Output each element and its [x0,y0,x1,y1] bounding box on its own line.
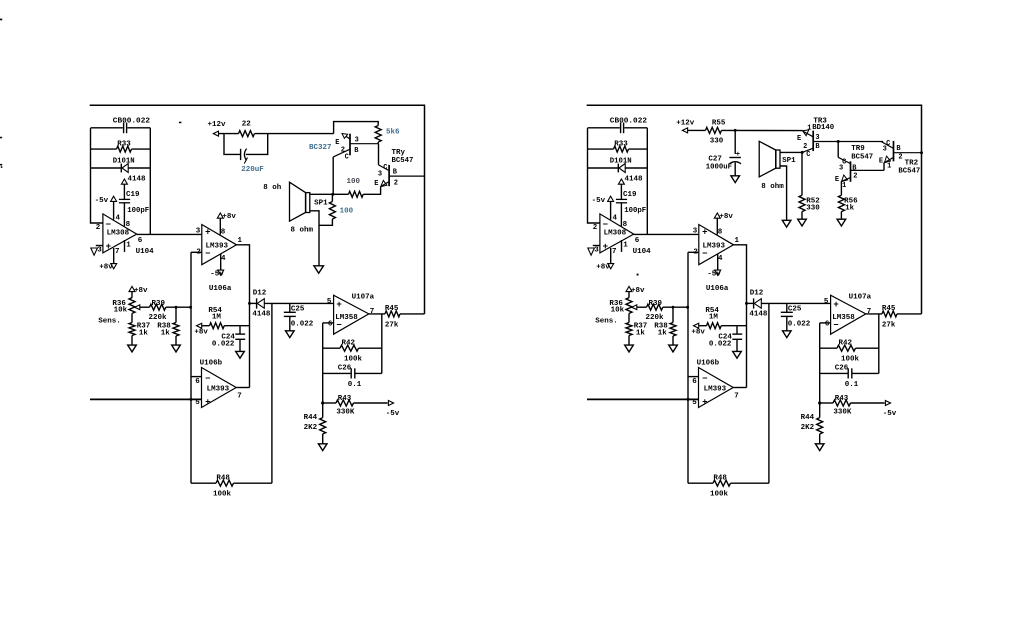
svg-text:R45: R45 [385,305,399,313]
svg-text:3: 3 [378,170,382,178]
svg-text:2: 2 [853,173,857,181]
wire U106a pin2 (left) [191,251,202,253]
svg-text:R39: R39 [649,300,663,308]
svg-text:−: − [702,374,707,384]
svg-text:+8v: +8v [596,264,610,272]
svg-text:E: E [879,157,883,165]
svg-text:6: 6 [692,378,697,386]
resistor R33 (right) [588,148,614,150]
wire SP1 bottom terminal (right) [780,166,787,220]
junction speaker node (left) [331,193,334,196]
svg-text:1: 1 [842,182,846,190]
svg-text:R45: R45 [882,305,896,313]
junction R38 top (right) [672,306,675,309]
wire R36 to R37 (left) [131,313,133,322]
svg-text:E: E [335,139,339,147]
svg-text:U107a: U107a [849,294,872,302]
wire SP1 top terminal (right) [780,151,802,153]
svg-text:LM393: LM393 [704,386,727,394]
svg-text:BC547: BC547 [851,153,873,161]
svg-text:-5v: -5v [883,410,897,418]
svg-text:TR2: TR2 [905,159,919,167]
svg-text:1: 1 [126,242,131,250]
op-amp U104 LM308 (right) [600,214,634,253]
capacitor C27 1000uF (right) [734,130,736,154]
svg-text:6: 6 [138,237,143,245]
svg-text:+: + [205,228,210,238]
transistor TRy BC547 (left) [378,144,380,165]
wire fb bus vertical (right) [819,323,821,418]
resistor R45 27k (left) [385,311,400,317]
svg-text:R48: R48 [713,475,727,483]
svg-text:3: 3 [815,134,819,142]
svg-text:BD140: BD140 [812,124,834,132]
svg-text:2: 2 [803,143,807,151]
resistor 100 horizontal (left) [349,191,364,197]
transistor TR9 BC547 (right) [837,142,839,158]
wire SP1 bottom terminal (left) [310,211,319,266]
ground below R38 (left) [175,336,177,345]
svg-text:D12: D12 [253,290,267,298]
wire U106b output (left) [236,387,249,389]
+8v supply at U104 pin7 (right) [610,248,612,263]
wire input long to U106b pin5 (left) [90,398,202,400]
svg-text:7: 7 [115,248,120,256]
svg-text:10k: 10k [611,307,625,315]
svg-text:C19: C19 [623,191,637,199]
svg-text:C25: C25 [291,306,305,314]
op-amp U104 LM308 (left) [103,214,137,253]
svg-text:3: 3 [196,227,201,235]
wire R40 up to D12 node (left) [271,303,273,483]
svg-text:+12v: +12v [676,120,695,128]
svg-text:100: 100 [340,208,354,216]
svg-text:R43: R43 [835,395,849,403]
wire fb bus vertical (left) [322,323,324,418]
svg-text:6: 6 [328,320,333,328]
+8v supply at R54 (right) [694,323,699,328]
svg-text:CB00.022: CB00.022 [113,117,150,125]
junction comparator outputs (left) [248,302,251,305]
speaker SP1 (left) [306,193,310,213]
svg-text:3: 3 [355,136,359,144]
svg-text:2: 2 [898,153,902,161]
svg-text:-5v: -5v [210,271,224,279]
svg-text:4148: 4148 [128,176,147,184]
wire R40 up to D12 node (right) [768,303,770,483]
capacitor CB0 0.022 (left) [123,123,125,134]
svg-text:+8v: +8v [194,328,208,336]
+8v supply at R54 (left) [197,323,202,328]
svg-text:27k: 27k [882,322,896,330]
-5v supply at U106a pin4 (left) [220,254,222,270]
wire U106a pin2 (right) [688,251,699,253]
svg-text:0.1: 0.1 [348,381,362,389]
svg-text:R33: R33 [117,141,131,149]
svg-text:U106b: U106b [697,360,720,368]
svg-text:7: 7 [612,248,617,256]
capacitor 220uF branch (left) [224,134,240,155]
svg-text:E: E [797,135,801,143]
svg-text:1k: 1k [139,330,149,338]
wire R36 to R37 (right) [628,313,630,322]
capacitor C19 100pF (right) [616,198,627,200]
ground below C24 (left) [236,351,245,358]
svg-text:4148: 4148 [625,176,644,184]
capacitor C25 0.022 (left) [289,303,291,312]
svg-text:U104: U104 [136,248,155,256]
svg-text:E: E [835,176,839,184]
node arrow below diode (left) [121,179,127,184]
svg-text:+8v: +8v [99,264,113,272]
svg-text:+: + [106,242,111,252]
svg-text:U106b: U106b [200,360,223,368]
svg-text:D101N: D101N [113,158,135,166]
svg-text:330K: 330K [336,409,355,417]
svg-text:1000uF: 1000uF [706,164,732,172]
svg-text:C26: C26 [835,365,849,373]
ground below R37 (right) [628,336,630,345]
diode D10 1N4148 (right) [588,167,618,169]
svg-text:+: + [205,398,210,408]
svg-text:22: 22 [242,120,252,128]
svg-text:5: 5 [327,298,332,306]
svg-text:0.022: 0.022 [291,321,314,329]
svg-text:LM393: LM393 [207,386,230,394]
resistor 100 vertical (left) [331,194,333,201]
wire fb right vertical (right) [878,314,880,374]
svg-text:+: + [336,300,341,310]
resistor R39 220k (left) [140,306,150,308]
svg-text:8: 8 [221,228,226,236]
svg-text:−: − [833,321,838,331]
ground below SP1 (right) [782,220,791,227]
op-amp U107a LM358 (right) [831,295,866,334]
wire fb right vertical (left) [381,314,383,374]
schematic top/right border (left) [90,105,425,314]
stray dot (right) [637,274,639,276]
svg-text:R44: R44 [801,414,815,422]
svg-text:D101N: D101N [610,158,632,166]
capacitor C25 0.022 (right) [786,303,788,312]
junction R38 top (left) [175,306,178,309]
U104 pin1 stub (right) [621,240,623,252]
svg-text:TR9: TR9 [851,145,865,153]
ground arrow at U104 pin3 (right) [593,245,600,247]
comparator U106b LM393 (left) [202,368,237,408]
svg-text:3: 3 [883,146,887,154]
svg-text:1M: 1M [212,313,222,321]
ground below C25 (right) [783,331,792,338]
junction R43/R44 (left) [321,401,324,404]
comparator U106b LM393 (right) [699,368,734,408]
ground below SP1 (left) [314,266,324,273]
capacitor C26 0.1 (right) [820,372,848,374]
resistor R56 1k (right) [840,181,842,195]
ground below R52 (right) [798,219,807,226]
wire feedback box left rail (left) [91,128,103,223]
resistor R54 1M (right) [699,325,706,327]
U104 pin1 stub (left) [124,240,126,252]
svg-text:8: 8 [718,228,723,236]
svg-text:100k: 100k [710,491,729,499]
svg-text:U104: U104 [633,248,652,256]
resistor 22 (left) [239,131,255,137]
svg-text:+: + [702,228,707,238]
+8v supply at R36 (left) [129,286,135,291]
svg-text:10k: 10k [114,307,128,315]
+8v supply at U104 pin7 (left) [113,248,115,263]
svg-text:U107a: U107a [352,294,375,302]
svg-text:1M: 1M [709,313,719,321]
resistor R37 1k (left) [129,323,135,336]
wire inverting bus vertical (right) [687,252,689,483]
wire BC327 collector down (left) [332,157,334,194]
wire U104 out to U106a pin3 (left) [137,233,202,235]
svg-text:C: C [806,151,810,159]
+8v supply at R36 (right) [626,286,632,291]
diode D12 4148 (right) [747,302,754,304]
ground below C25 (left) [286,331,295,338]
svg-text:Sens.: Sens. [98,318,121,326]
ground below R38 (right) [672,336,674,345]
svg-text:6: 6 [825,320,830,328]
svg-text:LM308: LM308 [107,229,130,237]
svg-text:220k: 220k [646,314,665,322]
svg-text:−: − [603,220,608,230]
svg-text:330: 330 [710,137,724,145]
resistor R43 330K (right) [820,402,833,404]
speaker SP1 (right) [776,150,780,168]
svg-text:+: + [702,398,707,408]
svg-text:R55: R55 [712,119,726,127]
svg-text:BC327: BC327 [309,144,332,152]
capacitor C24 0.022 (right) [736,326,738,334]
resistor R40 100k (right) [688,482,713,484]
resistor R40 100k (left) [191,482,216,484]
svg-text:−: − [205,374,210,384]
svg-text:−: − [336,321,341,331]
schematic top/right border (right) [587,105,922,314]
svg-text:C27: C27 [708,155,722,163]
svg-text:1k: 1k [636,330,646,338]
junction comparator outputs (right) [745,302,748,305]
svg-text:1k: 1k [845,205,855,213]
svg-text:R33: R33 [614,141,628,149]
ground below C24 (right) [733,351,742,358]
wire input long to U106b pin5 (right) [587,398,699,400]
-5v arrow right of R43 (right) [885,401,890,406]
wire U104 out to U106a pin3 (right) [634,233,699,235]
wire U107a output (right) [866,313,882,315]
resistor R42 100k (left) [323,347,340,349]
resistor R39 220k (right) [637,306,647,308]
svg-text:C19: C19 [126,191,140,199]
node arrow below diode (right) [618,179,624,184]
-5v arrow right of R43 (left) [388,401,393,406]
svg-text:27k: 27k [385,322,399,330]
wire TRy emitter (left) [363,187,380,195]
ground below R37 (left) [131,336,133,345]
junction TR9 collector node (right) [837,140,840,143]
wire rail to 5k6 (left) [334,122,379,134]
svg-text:3: 3 [839,165,843,173]
wire feedback box right rail (left) [149,128,151,234]
svg-text:8 ohm: 8 ohm [761,183,784,191]
svg-text:+8v: +8v [631,287,645,295]
svg-text:7: 7 [237,393,242,401]
resistor R52 330 (right) [801,152,803,195]
svg-text:1k: 1k [161,330,171,338]
svg-text:D12: D12 [750,290,764,298]
junction U106b pin5 (left) [190,398,193,401]
junction R43/R44 (right) [818,401,821,404]
svg-text:C26: C26 [338,365,352,373]
svg-text:−: − [106,220,111,230]
svg-text:LM308: LM308 [604,229,627,237]
stray mark (left) [179,122,182,124]
svg-text:U106a: U106a [706,285,729,293]
svg-text:-5v: -5v [386,410,400,418]
svg-text:+8v: +8v [222,213,236,221]
wire U106b pin6 (right) [688,376,699,378]
svg-text:E: E [374,180,378,188]
svg-text:R39: R39 [152,300,166,308]
svg-text:4: 4 [718,255,723,263]
svg-text:6: 6 [635,237,640,245]
svg-text:220k: 220k [149,314,168,322]
svg-text:-5v: -5v [707,271,721,279]
wire feedback box left rail (right) [588,128,600,223]
svg-text:−: − [702,249,707,259]
resistor R44 2K2 (left) [320,418,326,434]
junction TR3 collector (right) [801,151,804,154]
diode D12 4148 (left) [250,302,257,304]
svg-text:2: 2 [96,224,101,232]
resistor R45 27k (right) [882,311,897,317]
svg-text:+8v: +8v [719,213,733,221]
svg-text:-5v: -5v [95,197,109,205]
transistor Q1 BC327 (left) [349,134,351,156]
svg-text:4148: 4148 [749,310,768,318]
wire +12v rail (left) [219,133,239,135]
resistor R54 1M (left) [202,325,209,327]
wire U106a output down (right) [734,245,747,388]
svg-text:+: + [833,300,838,310]
wire +12v rail (right) [688,129,706,131]
svg-text:CB00.022: CB00.022 [610,117,647,125]
svg-text:100k: 100k [344,356,363,364]
resistor R38 1k (right) [672,307,674,322]
capacitor C26 0.1 (left) [323,372,351,374]
svg-text:−: − [205,249,210,259]
svg-text:2K2: 2K2 [801,424,815,432]
capacitor CB0 0.022 (right) [620,123,622,134]
svg-text:+12v: +12v [208,121,227,129]
svg-text:4: 4 [221,255,226,263]
svg-text:-5v: -5v [592,197,606,205]
capacitor C19 100pF (left) [119,198,130,200]
svg-text:U106a: U106a [209,285,232,293]
svg-text:2K2: 2K2 [304,424,318,432]
svg-text:2: 2 [593,224,598,232]
svg-text:+8v: +8v [691,328,705,336]
svg-text:+8v: +8v [134,287,148,295]
svg-text:7: 7 [734,393,739,401]
svg-text:BC547: BC547 [898,168,920,176]
wire inverting bus vertical (left) [190,252,192,483]
potentiometer R36 10k (left) [129,298,135,314]
svg-text:+: + [603,242,608,252]
svg-text:2: 2 [394,179,398,187]
ground below R44 (left) [322,434,324,444]
svg-text:220uF: 220uF [241,166,264,174]
svg-text:100pF: 100pF [624,207,646,215]
svg-text:0.022: 0.022 [709,340,732,348]
comparator U106a LM393 (right) [699,225,734,265]
svg-text:8 ohm: 8 ohm [291,227,314,235]
svg-text:1: 1 [238,237,243,245]
resistor 5k6 (left) [375,126,381,143]
resistor R43 330K (left) [323,402,336,404]
svg-text:8 oh: 8 oh [263,184,282,192]
wire U107a output (left) [369,313,385,315]
left edge artifacts [0,19,2,21]
svg-text:1: 1 [887,163,891,171]
wire SP1 top terminal (left) [310,193,333,195]
diode D10 1N4148 (left) [91,167,121,169]
svg-text:100: 100 [347,178,361,186]
svg-text:1: 1 [623,242,628,250]
svg-text:100k: 100k [213,491,232,499]
ground below R56 (right) [837,219,846,226]
svg-text:Sens.: Sens. [595,318,618,326]
svg-text:C: C [345,154,349,162]
wire U106b pin6 (left) [191,376,202,378]
resistor R38 1k (left) [175,307,177,322]
resistor R42 100k (right) [820,347,837,349]
svg-text:6: 6 [195,378,200,386]
junction C27 (right) [734,129,737,132]
svg-text:1k: 1k [658,330,668,338]
svg-text:0.022: 0.022 [212,340,235,348]
resistor R37 1k (right) [626,323,632,336]
svg-text:4148: 4148 [252,310,271,318]
capacitor C24 0.022 (left) [239,326,241,334]
op-amp U107a LM358 (left) [334,295,369,334]
svg-text:100pF: 100pF [127,207,149,215]
svg-text:SP1: SP1 [314,200,328,208]
wire cap row (left) [91,127,123,129]
wire U106b output (right) [733,387,746,389]
svg-text:BC547: BC547 [392,157,414,165]
svg-text:C25: C25 [788,306,802,314]
resistor R55 330 (right) [706,127,722,133]
ground below C27 (right) [731,176,740,183]
svg-text:1: 1 [735,237,740,245]
svg-text:3: 3 [693,227,698,235]
svg-text:R42: R42 [342,339,356,347]
comparator U106a LM393 (left) [202,225,237,265]
svg-text:R43: R43 [338,395,352,403]
svg-text:1: 1 [807,125,811,133]
wire U107a pin6 (right) [820,322,831,324]
svg-text:C: C [383,164,387,172]
svg-text:0.022: 0.022 [788,321,811,329]
wire feedback box right rail (right) [646,128,648,234]
-5v supply at U106a pin4 (right) [717,254,719,270]
wire U106a output down (left) [237,245,250,388]
